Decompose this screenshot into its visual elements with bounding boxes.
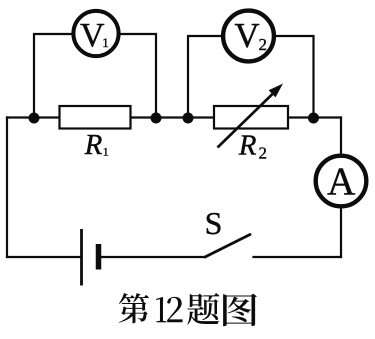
svg-text:A: A: [327, 160, 355, 203]
svg-text:S: S: [205, 205, 223, 241]
rheostat R2 arrow: [218, 93, 275, 148]
voltmeter V1 circle: [73, 11, 118, 56]
switch S lever: [205, 235, 250, 258]
node junction dot D (right of R2 / V2 tap): [308, 113, 319, 124]
wire main horizontal left segment: [7, 116, 60, 118]
rheostat R2 body: [214, 106, 288, 129]
wire left vertical: [6, 118, 8, 258]
node junction dot B (right of R1 / V1 tap): [151, 113, 162, 124]
ammeter A circle: [316, 156, 367, 207]
wire V1 right branch: [120, 34, 157, 118]
voltmeter V2 circle: [223, 11, 274, 62]
wire switch to right corner: [254, 256, 342, 258]
caption digit 1: [156, 297, 166, 322]
caption character 题: [187, 293, 219, 325]
svg-text:V: V: [234, 16, 259, 55]
wire V1 left branch: [34, 34, 73, 118]
svg-text:2: 2: [258, 35, 267, 54]
svg-text:2: 2: [259, 143, 268, 162]
battery short plate: [96, 244, 102, 270]
wire V2 left branch: [188, 36, 223, 118]
wire right vertical above ammeter: [340, 118, 342, 155]
caption character 图: [223, 294, 257, 327]
resistor R1 body: [60, 106, 131, 129]
wire main horizontal middle segment: [131, 116, 215, 118]
caption character 第: [119, 293, 149, 323]
svg-text:1: 1: [102, 35, 109, 50]
caption digit 2: [167, 297, 182, 322]
svg-text:1: 1: [103, 145, 109, 159]
svg-text:R: R: [84, 129, 103, 161]
wire bottom left to battery: [7, 256, 81, 258]
wire right vertical below ammeter: [340, 209, 342, 258]
svg-text:R: R: [238, 130, 257, 162]
node junction dot C (V2 left tap): [183, 113, 194, 124]
battery long plate: [80, 229, 83, 286]
wire V2 right branch: [275, 36, 314, 118]
node junction dot A (left of R1): [29, 113, 40, 124]
wire battery to switch: [99, 256, 205, 258]
wire main horizontal right segment: [288, 116, 341, 118]
